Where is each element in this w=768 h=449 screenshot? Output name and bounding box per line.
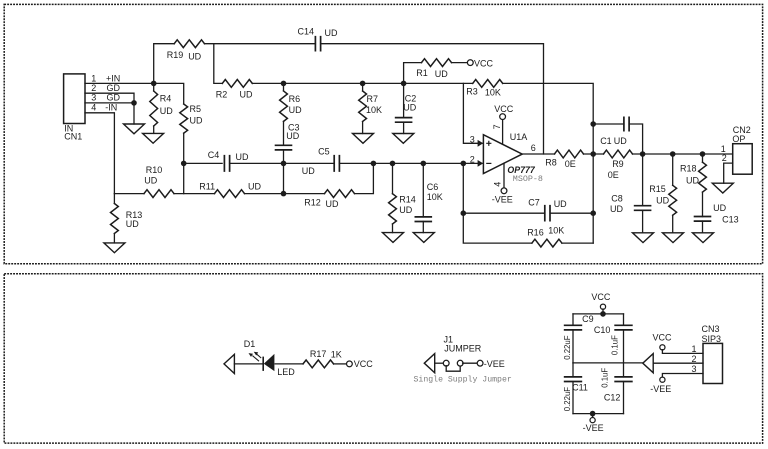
svg-text:2: 2	[470, 154, 475, 164]
svg-text:UD: UD	[236, 152, 249, 162]
node feedback/C1	[590, 121, 596, 127]
svg-text:4: 4	[91, 102, 96, 112]
svg-text:SIP3: SIP3	[702, 334, 722, 344]
svg-text:C9: C9	[582, 314, 594, 324]
wire LED to R17	[275, 363, 303, 365]
ground under CN2 pin2	[712, 183, 733, 193]
svg-text:C12: C12	[604, 393, 621, 403]
wire mid rail to CN3 arrow	[573, 362, 643, 364]
svg-text:4: 4	[492, 182, 502, 187]
svg-text:C10: C10	[594, 325, 611, 335]
svg-text:-VEE: -VEE	[583, 423, 604, 433]
wire R9 to CN2 pin1	[633, 153, 733, 155]
svg-text:VCC: VCC	[591, 292, 611, 302]
node -in/R14	[390, 161, 396, 167]
svg-text:C6: C6	[427, 182, 439, 192]
svg-text:UD: UD	[554, 199, 567, 209]
svg-text:UD: UD	[325, 28, 338, 38]
svg-text:UD: UD	[289, 105, 302, 115]
svg-text:VCC: VCC	[474, 58, 494, 68]
wire R12 up to C5 node	[355, 163, 374, 193]
svg-text:UD: UD	[686, 176, 699, 186]
node -in/C6	[421, 161, 427, 167]
wire op-amp pin4 -VEE stub	[503, 163, 505, 188]
wire top dashed frame	[4, 4, 762, 263]
wire VCC stub	[602, 309, 604, 314]
wire CN1 pin2 GD	[85, 93, 134, 103]
ground under R14	[383, 233, 404, 243]
terminal -VEE at CN3 pin3	[660, 377, 665, 382]
connector CN3	[692, 324, 723, 383]
wire C5 to op-amp -input	[339, 162, 482, 164]
terminal -VEE at cap block	[590, 418, 595, 423]
wire R16 to feedback vertical	[562, 242, 593, 244]
wire +IN node up to R19	[154, 44, 175, 84]
connector CN1	[64, 73, 121, 141]
svg-text:10K: 10K	[366, 105, 382, 115]
svg-text:R8: R8	[545, 157, 557, 167]
capacitor C6	[415, 163, 443, 232]
svg-text:3: 3	[692, 364, 697, 374]
svg-text:R6: R6	[289, 94, 301, 104]
svg-text:2: 2	[692, 354, 697, 364]
svg-text:UD: UD	[248, 181, 261, 191]
terminal -VEE at op-amp pin 4	[501, 188, 507, 194]
node feedback/C7	[590, 210, 596, 216]
svg-text:UD: UD	[188, 51, 201, 61]
wire rail down to op-amp +input	[463, 83, 482, 143]
svg-text:UD: UD	[326, 199, 339, 209]
ground arrow at CN3 pin2	[643, 354, 653, 373]
capacitor C2	[395, 83, 417, 133]
node output/R18	[700, 151, 706, 157]
wire R11-R12	[245, 193, 325, 195]
node output/R15	[670, 151, 676, 157]
svg-text:10K: 10K	[548, 226, 564, 236]
ground under C2	[393, 134, 414, 144]
svg-text:1: 1	[91, 74, 96, 84]
svg-text:3: 3	[470, 135, 475, 145]
node rail/C2/R1	[401, 81, 407, 87]
svg-text:UD: UD	[403, 102, 416, 112]
wire C14 to feedback corner down to output	[321, 44, 544, 154]
svg-text:R7: R7	[367, 94, 379, 104]
capacitor C7	[463, 197, 593, 221]
svg-text:3: 3	[91, 93, 96, 103]
node -in/C7	[461, 210, 467, 216]
ground under C13	[693, 233, 714, 243]
svg-text:UD: UD	[160, 106, 173, 116]
svg-text:VCC: VCC	[354, 359, 374, 369]
wire R19 to C14	[205, 43, 316, 45]
svg-text:10K: 10K	[427, 192, 443, 202]
wire CN1 pin4 -IN down to R10	[85, 113, 114, 194]
svg-text:0.22uF: 0.22uF	[563, 387, 572, 412]
svg-text:-VEE: -VEE	[484, 359, 505, 369]
svg-text:R2: R2	[216, 89, 228, 99]
resistor R7	[359, 83, 382, 133]
node R11/R12/C3	[281, 191, 287, 197]
resistor R10	[114, 165, 174, 198]
connector CN2	[721, 125, 752, 174]
node output/C8	[640, 151, 646, 157]
op-amp U1A	[470, 132, 543, 184]
node R2/R6	[281, 81, 287, 87]
diode D1 LED	[224, 339, 295, 377]
svg-text:C1: C1	[600, 136, 612, 146]
wire CN1 pin3 GD	[85, 102, 134, 104]
svg-text:2: 2	[91, 83, 96, 93]
wire R2 to R3 rail	[252, 82, 472, 84]
wire CN2 pin2 to ground	[724, 163, 733, 183]
svg-text:R12: R12	[304, 198, 321, 208]
svg-text:LED: LED	[277, 367, 295, 377]
wire R5 to C4 node	[183, 133, 185, 193]
svg-text:U1A: U1A	[510, 132, 528, 142]
node C4/C3/C5	[281, 161, 287, 167]
svg-text:UD: UD	[399, 205, 412, 215]
terminal VCC at R1	[467, 60, 473, 66]
ground under CN1 GD	[124, 124, 145, 134]
terminal VCC at op-amp pin 7	[500, 114, 506, 120]
svg-text:Single Supply Jumper: Single Supply Jumper	[414, 375, 512, 385]
wire top rail down to R2	[214, 44, 223, 84]
ground under R15	[663, 233, 684, 243]
jumper J1	[424, 335, 505, 373]
svg-text:R15: R15	[649, 184, 666, 194]
wire R3 to feedback vertical	[503, 83, 594, 243]
svg-text:C5: C5	[318, 147, 330, 157]
capacitor C14	[298, 27, 338, 52]
node -in/feedback	[461, 161, 467, 167]
svg-text:UD: UD	[144, 176, 157, 186]
wire CN3 pin1	[662, 350, 703, 354]
svg-text:UD: UD	[435, 69, 448, 79]
wire CN3 pin3	[662, 374, 703, 378]
node GD junction	[131, 100, 137, 106]
wire C4 to C5	[230, 162, 335, 164]
svg-text:UD: UD	[302, 166, 315, 176]
svg-text:R3: R3	[466, 87, 478, 97]
svg-text:UD: UD	[656, 196, 669, 206]
wire C3 down through C4 line to R11 line	[283, 150, 285, 194]
svg-text:R10: R10	[146, 165, 163, 175]
capacitor C5	[302, 147, 340, 176]
capacitor C1	[593, 117, 642, 155]
node +IN junction	[151, 81, 157, 87]
node C5/R12	[371, 161, 377, 167]
svg-text:6: 6	[531, 143, 536, 153]
wire GD down to ground	[133, 103, 135, 124]
resistor R19	[167, 40, 205, 62]
capacitor C9	[563, 314, 594, 363]
capacitor C3	[275, 121, 300, 149]
resistor R12	[304, 190, 354, 209]
node rail/R7	[360, 81, 366, 87]
svg-text:-VEE: -VEE	[492, 194, 513, 204]
capacitor C10	[594, 314, 633, 363]
wire R8 to R9	[584, 153, 604, 155]
svg-text:C13: C13	[722, 215, 739, 225]
resistor R13	[111, 194, 143, 243]
wire R10-R11	[174, 193, 215, 195]
svg-text:0E: 0E	[565, 159, 576, 169]
wire +IN node to R5 top	[154, 83, 184, 104]
svg-text:VCC: VCC	[494, 104, 514, 114]
resistor R2	[216, 80, 253, 100]
node -VEE rail	[590, 411, 596, 417]
svg-text:R4: R4	[160, 94, 172, 104]
svg-text:-VEE: -VEE	[650, 384, 671, 394]
wire op-amp pin7 VCC stub	[502, 119, 504, 144]
svg-text:D1: D1	[244, 339, 256, 349]
resistor R17	[303, 349, 342, 368]
wire bottom rail	[573, 413, 624, 415]
svg-text:UD: UD	[713, 203, 726, 213]
svg-text:10K: 10K	[485, 87, 501, 97]
svg-text:R17: R17	[310, 349, 327, 359]
svg-text:UD: UD	[190, 116, 203, 126]
svg-text:C11: C11	[572, 383, 588, 393]
svg-text:MSOP-8: MSOP-8	[513, 174, 543, 184]
resistor R14	[389, 163, 416, 232]
svg-text:0E: 0E	[608, 170, 619, 180]
svg-text:C14: C14	[298, 27, 315, 37]
resistor R3	[466, 80, 502, 98]
resistor R8	[545, 150, 583, 169]
svg-text:GD: GD	[107, 83, 121, 93]
ground under R7	[353, 134, 374, 144]
node R5/C4	[181, 161, 187, 167]
svg-text:7: 7	[492, 124, 502, 129]
wire op-amp output	[522, 153, 554, 155]
resistor R18	[680, 154, 706, 192]
svg-text:UD: UD	[126, 219, 139, 229]
ground under C8	[633, 233, 654, 243]
wire -VEE stub	[592, 414, 594, 418]
wire R17 to VCC	[334, 363, 347, 365]
svg-text:OP: OP	[732, 134, 745, 144]
resistor R6	[280, 83, 302, 121]
wire top rail	[573, 313, 624, 315]
wire CN1 pin1 +IN to node	[85, 82, 154, 84]
resistor R11	[199, 181, 261, 197]
capacitor C8	[610, 154, 651, 233]
node VCC rail	[600, 311, 606, 317]
svg-text:2: 2	[722, 153, 727, 163]
ground under C6	[413, 233, 434, 243]
svg-text:CN1: CN1	[64, 131, 82, 141]
ground under R4	[143, 133, 164, 143]
resistor R1	[404, 59, 468, 84]
svg-text:+IN: +IN	[106, 73, 120, 83]
svg-text:0.1uF: 0.1uF	[600, 368, 609, 388]
svg-text:CN3: CN3	[702, 324, 720, 334]
capacitor C4	[208, 150, 249, 172]
capacitor C11	[563, 363, 588, 414]
svg-text:UD: UD	[614, 136, 627, 146]
node feedback/output	[590, 151, 596, 157]
ground under R13	[104, 243, 125, 253]
svg-text:GD: GD	[107, 93, 121, 103]
resistor R5	[180, 104, 203, 133]
resistor R15	[649, 154, 676, 233]
wire C4 left	[184, 162, 222, 164]
svg-text:VCC: VCC	[653, 332, 673, 342]
svg-text:-IN: -IN	[105, 102, 117, 112]
svg-text:R11: R11	[199, 181, 215, 191]
svg-text:1K: 1K	[331, 350, 342, 360]
svg-text:0.22uF: 0.22uF	[563, 335, 572, 360]
svg-text:UD: UD	[286, 131, 299, 141]
svg-text:UD: UD	[240, 89, 253, 99]
svg-text:R1: R1	[416, 68, 428, 78]
svg-text:R19: R19	[167, 50, 184, 60]
svg-text:R5: R5	[190, 104, 202, 114]
capacitor C12	[600, 363, 632, 414]
wire bottom dashed frame	[4, 274, 762, 443]
svg-text:1: 1	[692, 344, 697, 354]
resistor R4	[150, 83, 173, 133]
svg-text:C4: C4	[208, 150, 220, 160]
svg-text:C7: C7	[528, 197, 540, 207]
svg-text:R18: R18	[680, 164, 697, 174]
wire -input node down to R16	[463, 163, 532, 243]
wire CN3 pin2	[654, 362, 703, 364]
terminal VCC at R17	[347, 361, 353, 367]
svg-text:UD: UD	[610, 204, 623, 214]
svg-text:C8: C8	[611, 193, 623, 203]
svg-text:R14: R14	[399, 194, 416, 204]
svg-text:R16: R16	[527, 227, 544, 237]
resistor R16	[527, 226, 564, 247]
svg-text:R9: R9	[612, 159, 624, 169]
resistor R9	[604, 150, 633, 180]
svg-text:JUMPER: JUMPER	[444, 343, 482, 353]
svg-text:0.1uF: 0.1uF	[610, 335, 619, 355]
capacitor C13	[694, 192, 739, 233]
